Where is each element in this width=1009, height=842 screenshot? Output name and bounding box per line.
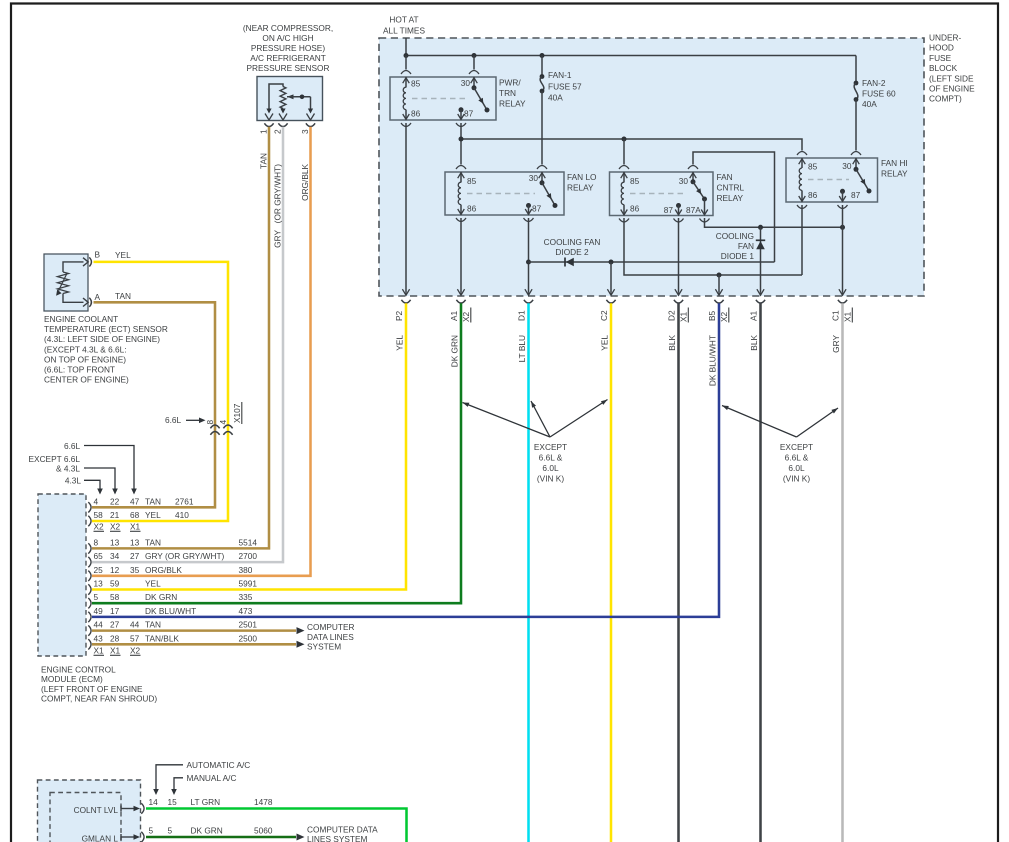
svg-text:CENTER OF ENGINE): CENTER OF ENGINE) <box>44 375 129 385</box>
svg-text:13: 13 <box>94 579 104 589</box>
svg-text:HOOD: HOOD <box>929 43 954 53</box>
svg-text:35: 35 <box>130 565 140 575</box>
relay PWR/TRN terminal 87 <box>458 107 465 119</box>
wire: FAN LO 87 down to D1 <box>526 218 531 292</box>
relay FAN HI: connector cups at bottom <box>797 205 848 209</box>
svg-text:LINES SYSTEM: LINES SYSTEM <box>307 834 367 842</box>
relay PWR/TRN movable contact arm <box>472 85 490 112</box>
svg-text:EXCEPT: EXCEPT <box>780 442 813 452</box>
svg-text:5: 5 <box>168 826 173 836</box>
svg-text:ENGINE COOLANT: ENGINE COOLANT <box>44 314 118 324</box>
relay FAN HI: connector cups at top <box>797 152 861 156</box>
svg-text:BLK: BLK <box>667 335 677 351</box>
fuse FAN-1 label <box>548 70 582 102</box>
GMLAN L output arrow <box>121 834 140 840</box>
wire LT BLU (D1) <box>527 303 530 842</box>
svg-text:21: 21 <box>110 510 120 520</box>
svg-text:17: 17 <box>110 606 120 616</box>
note: COMPUTER DATA LINES SYSTEM <box>307 622 354 652</box>
svg-text:TAN: TAN <box>259 153 269 169</box>
svg-text:BLK: BLK <box>749 335 759 351</box>
relay FAN CNTRL coil (85-86) <box>621 172 628 215</box>
wire: battery feed into fuse block <box>405 38 407 56</box>
svg-text:TAN: TAN <box>115 291 131 301</box>
relay FAN LO box <box>445 172 564 215</box>
svg-text:FAN-1: FAN-1 <box>548 70 572 80</box>
svg-text:COOLING: COOLING <box>716 231 754 241</box>
svg-text:1: 1 <box>259 129 269 134</box>
A/C refrigerant pressure sensor box <box>257 77 323 121</box>
ECM pin row ORG/BLK 380 labels <box>94 565 253 575</box>
wire: bus to PWR/TRN terminal 30 <box>473 56 475 70</box>
ECM pin row GRY (OR GRY/WHT) 2700 labels <box>94 551 258 561</box>
diode COOLING FAN DIODE 1 symbol <box>756 240 765 249</box>
inline connector X107 on TAN wire (pin 8) <box>210 425 219 435</box>
svg-text:FUSE: FUSE <box>929 53 952 63</box>
svg-text:PRESSURE SENSOR: PRESSURE SENSOR <box>247 63 330 73</box>
svg-text:FUSE 60: FUSE 60 <box>862 89 896 99</box>
svg-text:3: 3 <box>300 129 310 134</box>
svg-text:EXCEPT 6.6L: EXCEPT 6.6L <box>29 454 81 464</box>
svg-text:D1: D1 <box>517 310 527 321</box>
svg-text:AUTOMATIC A/C: AUTOMATIC A/C <box>187 760 251 770</box>
svg-text:86: 86 <box>808 190 818 200</box>
svg-text:30: 30 <box>679 176 689 186</box>
ECM pin row YEL 5991 labels <box>94 579 258 589</box>
svg-text:44: 44 <box>94 620 104 630</box>
ECT sensor box <box>44 254 88 311</box>
svg-text:85: 85 <box>411 79 421 89</box>
relay FAN CNTRL terminal 87 <box>675 203 682 215</box>
relay PWR/TRN label <box>499 78 526 109</box>
wire: relay coil feed bus <box>459 137 803 151</box>
svg-text:OF ENGINE: OF ENGINE <box>929 84 975 94</box>
note: EXCEPT 6.6L and 6.0L (VIN K) left <box>463 400 608 484</box>
svg-text:B: B <box>95 250 101 260</box>
svg-text:85: 85 <box>467 176 477 186</box>
fuse FAN-1 FUSE 57 40A <box>540 56 545 165</box>
svg-text:40A: 40A <box>862 99 877 109</box>
relay FAN HI terminal 87 <box>839 189 846 202</box>
svg-text:410: 410 <box>175 510 189 520</box>
svg-text:44: 44 <box>130 620 140 630</box>
ECM pin row TAN 2761 labels <box>94 496 194 506</box>
svg-text:A/C REFRIGERANT: A/C REFRIGERANT <box>250 53 326 63</box>
svg-text:ALL TIMES: ALL TIMES <box>383 26 425 36</box>
svg-text:5514: 5514 <box>239 537 258 547</box>
wire DK GRN circuit 5060 <box>146 834 305 841</box>
svg-text:X1: X1 <box>110 646 121 656</box>
pin row 5 5 DK GRN 5060 labels <box>149 826 273 836</box>
relay FAN CNTRL label <box>717 172 745 203</box>
svg-text:X2: X2 <box>461 311 471 322</box>
svg-text:6.6L &: 6.6L & <box>785 453 809 463</box>
svg-text:2700: 2700 <box>239 551 258 561</box>
svg-text:COMPT): COMPT) <box>929 94 962 104</box>
relay FAN LO terminal 87 <box>525 203 532 215</box>
svg-text:GMLAN L: GMLAN L <box>82 834 119 842</box>
underhood fuse block (dashed box) <box>379 38 924 296</box>
ECM connector pin hooks <box>88 502 91 649</box>
ECM pin row DK BLU/WHT 473 labels <box>94 606 253 616</box>
svg-text:25: 25 <box>94 565 104 575</box>
underhood fuse block label <box>929 33 975 104</box>
svg-text:(4.3L: LEFT SIDE OF ENGINE): (4.3L: LEFT SIDE OF ENGINE) <box>44 334 160 344</box>
wire: B5 drop <box>718 275 720 292</box>
svg-text:UNDER-: UNDER- <box>929 33 962 43</box>
wire BLK (A1 fan ground) <box>759 303 762 842</box>
wire: cooling fan diode 2 line <box>529 260 775 265</box>
wire: FAN CNTRL coil 86 to B5 ground bus <box>624 218 802 278</box>
note: EXCEPT 6.6L and 6.0L (VIN K) right <box>722 406 838 484</box>
svg-text:87: 87 <box>664 205 674 215</box>
note 6.6L pointing at X107 <box>165 415 206 425</box>
bottom module connector labels X2 X2 (cropped) <box>149 841 179 842</box>
svg-text:COOLING FAN: COOLING FAN <box>544 237 601 247</box>
svg-text:MODULE (ECM): MODULE (ECM) <box>41 674 103 684</box>
wire: FAN HI 87 down to C1 <box>842 205 844 292</box>
svg-text:CNTRL: CNTRL <box>717 183 745 193</box>
svg-text:4: 4 <box>94 496 99 506</box>
ECT sensor thermistor <box>56 258 88 307</box>
svg-text:59: 59 <box>110 579 120 589</box>
ECM connector labels X2 X2 X1 <box>94 522 141 532</box>
svg-text:C2: C2 <box>599 310 609 321</box>
svg-text:X2: X2 <box>110 522 121 532</box>
wire: top power bus <box>406 55 856 57</box>
svg-text:ENGINE CONTROL: ENGINE CONTROL <box>41 665 116 675</box>
inline connector X107 on YEL wire (pin 4) <box>223 425 232 435</box>
svg-text:2: 2 <box>273 129 283 134</box>
svg-text:COLNT LVL: COLNT LVL <box>74 805 119 815</box>
svg-text:A1: A1 <box>749 310 759 321</box>
ECM caption <box>41 665 157 704</box>
svg-text:DATA LINES: DATA LINES <box>307 632 354 642</box>
body control module outer dashed box <box>38 780 141 842</box>
relay PWR/TRN box <box>390 77 496 120</box>
svg-text:YEL: YEL <box>145 579 161 589</box>
svg-text:HOT AT: HOT AT <box>389 15 418 25</box>
svg-text:DK GRN: DK GRN <box>191 826 223 836</box>
relay FAN HI coil (85-86) <box>799 158 806 202</box>
relay FAN HI label <box>881 158 908 179</box>
svg-text:43: 43 <box>94 633 104 643</box>
net: HOT AT ALL TIMES label <box>383 15 425 36</box>
svg-text:(VIN K): (VIN K) <box>537 474 564 484</box>
ECM connector labels X1 X1 X2 <box>94 646 141 656</box>
svg-text:TAN: TAN <box>145 620 161 630</box>
svg-text:2500: 2500 <box>239 633 258 643</box>
svg-text:ORG/BLK: ORG/BLK <box>145 565 182 575</box>
svg-text:57: 57 <box>130 633 140 643</box>
A/C sensor potentiometer <box>265 84 315 120</box>
svg-text:COMPUTER: COMPUTER <box>307 622 354 632</box>
svg-text:14: 14 <box>149 797 159 807</box>
svg-text:DK GRN: DK GRN <box>450 335 460 367</box>
svg-text:30: 30 <box>461 78 471 88</box>
svg-text:X107: X107 <box>232 403 242 423</box>
svg-text:27: 27 <box>110 620 120 630</box>
note MANUAL A/C pointer <box>171 773 236 795</box>
fuse FAN-2 label <box>862 78 896 109</box>
svg-text:SYSTEM: SYSTEM <box>307 642 341 652</box>
svg-text:5: 5 <box>94 592 99 602</box>
wire DK BLU/WHT circuit 473 (B5 to ECM) <box>92 303 719 617</box>
svg-text:473: 473 <box>239 606 253 616</box>
note AUTOMATIC A/C pointer <box>153 760 250 795</box>
svg-text:DIODE 2: DIODE 2 <box>555 247 589 257</box>
A/C sensor: connector cups below box <box>264 123 315 126</box>
wire TAN/BLK circuit 2500 (ECM to data lines) <box>92 641 305 648</box>
svg-text:6.6L &: 6.6L & <box>539 453 563 463</box>
svg-text:6.0L: 6.0L <box>788 463 805 473</box>
svg-text:TAN: TAN <box>145 537 161 547</box>
svg-text:YEL: YEL <box>115 250 131 260</box>
svg-text:X1: X1 <box>679 311 689 322</box>
wire: FAN LO coil 86 down to A1 <box>460 218 462 292</box>
relay FAN LO movable contact arm <box>540 180 558 208</box>
connector label X1 (C1) <box>843 308 853 323</box>
svg-text:B5: B5 <box>707 310 717 321</box>
connector label X1 <box>679 308 689 323</box>
svg-text:8: 8 <box>94 537 99 547</box>
svg-text:6.6L: 6.6L <box>165 415 182 425</box>
svg-text:(EXCEPT 4.3L & 6.6L:: (EXCEPT 4.3L & 6.6L: <box>44 344 127 354</box>
relay PWR/TRN internal dashed link <box>412 98 467 100</box>
svg-text:5991: 5991 <box>239 579 258 589</box>
relay FAN LO internal dashed link <box>467 193 535 195</box>
svg-text:335: 335 <box>239 592 253 602</box>
svg-text:EXCEPT: EXCEPT <box>534 442 567 452</box>
relay FAN CNTRL: connector cups at top <box>619 166 698 170</box>
svg-text:12: 12 <box>110 565 120 575</box>
relay FAN LO coil (85-86) <box>458 172 465 215</box>
svg-text:380: 380 <box>239 565 253 575</box>
relay PWR/TRN switch terminal 30 <box>471 77 478 88</box>
svg-text:58: 58 <box>94 510 104 520</box>
svg-text:49: 49 <box>94 606 104 616</box>
relay FAN CNTRL internal dashed link <box>630 193 686 195</box>
bottom module pin hooks <box>141 803 144 842</box>
ECM dashed box <box>38 494 86 656</box>
svg-text:86: 86 <box>411 109 421 119</box>
svg-text:(LEFT SIDE: (LEFT SIDE <box>929 73 974 83</box>
wire LT GRN circuit 1478 <box>146 809 407 842</box>
ECM pin row TAN/BLK 2500 labels <box>94 633 258 643</box>
wire TAN circuit 2501 (ECM to data lines) <box>92 627 305 634</box>
ECM pin row TAN 5514 labels <box>94 537 258 547</box>
svg-text:2761: 2761 <box>175 496 194 506</box>
svg-text:X1: X1 <box>94 646 105 656</box>
svg-text:30: 30 <box>529 173 539 183</box>
svg-text:YEL: YEL <box>600 335 610 351</box>
note 4.3L pointer to ECM pin column 1 <box>65 476 103 495</box>
svg-text:58: 58 <box>110 592 120 602</box>
svg-text:COMPT, NEAR FAN SHROUD): COMPT, NEAR FAN SHROUD) <box>41 694 157 704</box>
fuse block bottom connector terminals (arrows and cups) <box>401 289 847 303</box>
relay FAN CNTRL movable contact arm to 87A <box>691 179 708 201</box>
wire: FAN CNTRL 87A bus <box>705 218 846 230</box>
svg-text:MANUAL A/C: MANUAL A/C <box>187 773 237 783</box>
svg-text:FAN: FAN <box>738 241 754 251</box>
wire: C2 drop from diode line <box>610 262 612 292</box>
svg-text:(OR GRY/WHT): (OR GRY/WHT) <box>273 164 283 224</box>
svg-text:1478: 1478 <box>254 797 273 807</box>
svg-text:6.6L: 6.6L <box>64 441 81 451</box>
wire: PWR/TRN 87 down to relay coil bus <box>460 123 462 165</box>
svg-text:FAN-2: FAN-2 <box>862 78 886 88</box>
svg-text:TAN/BLK: TAN/BLK <box>145 633 179 643</box>
svg-text:(6.6L: TOP FRONT: (6.6L: TOP FRONT <box>44 365 115 375</box>
wire: P2 drop (PWR/TRN coil 86) <box>405 123 407 292</box>
svg-text:& 4.3L: & 4.3L <box>56 464 80 474</box>
svg-text:ON A/C HIGH: ON A/C HIGH <box>262 33 313 43</box>
svg-text:65: 65 <box>94 551 104 561</box>
relay FAN LO label <box>567 172 597 193</box>
svg-text:PWR/: PWR/ <box>499 78 521 88</box>
ECT sensor caption <box>44 314 168 385</box>
svg-text:TEMPERATURE (ECT) SENSOR: TEMPERATURE (ECT) SENSOR <box>44 324 168 334</box>
svg-text:RELAY: RELAY <box>567 183 594 193</box>
svg-text:GRY: GRY <box>273 230 283 248</box>
svg-text:34: 34 <box>110 551 120 561</box>
relay FAN HI movable contact arm <box>854 167 872 194</box>
wire YEL (C2) <box>610 303 613 842</box>
svg-text:30: 30 <box>842 161 852 171</box>
svg-text:DK GRN: DK GRN <box>145 592 177 602</box>
relay FAN HI internal dashed link <box>808 179 849 181</box>
svg-text:15: 15 <box>168 797 178 807</box>
svg-text:C1: C1 <box>831 310 841 321</box>
svg-text:YEL: YEL <box>145 510 161 520</box>
svg-text:TRN: TRN <box>499 88 516 98</box>
diode COOLING FAN DIODE 2 symbol <box>565 258 574 267</box>
svg-text:X2: X2 <box>94 522 105 532</box>
svg-text:8: 8 <box>205 420 215 425</box>
svg-text:FAN HI: FAN HI <box>881 158 908 168</box>
wire GRY circuit 2700 (A/C sensor pin 2 to ECM) <box>92 127 283 562</box>
svg-text:4.3L: 4.3L <box>65 476 82 486</box>
svg-text:47: 47 <box>130 496 140 506</box>
svg-text:X1: X1 <box>130 522 141 532</box>
svg-text:86: 86 <box>630 204 640 214</box>
COLNT LVL output arrow <box>121 806 140 812</box>
note: COMPUTER DATA LINES SYSTEM (bottom) <box>307 825 378 842</box>
relay FAN CNTRL terminal 87A <box>701 199 708 215</box>
wire: branch to FAN CNTRL coil 85 <box>623 139 625 165</box>
svg-text:(NEAR COMPRESSOR,: (NEAR COMPRESSOR, <box>243 23 333 33</box>
relay FAN HI box <box>786 158 878 202</box>
relay FAN LO: connector cups at top <box>456 166 547 170</box>
svg-text:27: 27 <box>130 551 140 561</box>
note 6.6L pointer to ECM pin column 3 <box>64 441 137 495</box>
connector label X107 <box>232 402 242 424</box>
svg-text:5: 5 <box>149 826 154 836</box>
relay PWR/TRN coil (85-86) <box>403 77 410 120</box>
svg-text:68: 68 <box>130 510 140 520</box>
svg-text:86: 86 <box>467 204 477 214</box>
svg-text:COMPUTER DATA: COMPUTER DATA <box>307 825 378 835</box>
diode: COOLING FAN DIODE 1 wire <box>760 227 762 292</box>
svg-text:X1: X1 <box>843 311 853 322</box>
wire TAN circuit 2761 (ECT A to ECM) <box>92 302 215 507</box>
wire: FAN CNTRL 87 down to D2 <box>678 218 680 292</box>
connector label X2 (B5) <box>719 308 729 323</box>
relay PWR/TRN: connector cups at top <box>401 71 479 75</box>
note EXCEPT 6.6L & 4.3L pointer to ECM pin column 2 <box>29 454 118 495</box>
svg-text:FAN: FAN <box>717 172 733 182</box>
svg-text:4: 4 <box>218 420 228 425</box>
svg-text:P2: P2 <box>394 310 404 321</box>
wire DK GRN circuit 335 (A1 to ECM) <box>92 303 461 603</box>
svg-text:85: 85 <box>630 176 640 186</box>
relay FAN CNTRL switch terminal 30 <box>690 172 697 182</box>
svg-text:GRY (OR GRY/WHT): GRY (OR GRY/WHT) <box>145 551 225 561</box>
svg-text:87: 87 <box>532 204 542 214</box>
wire GRY (C1) <box>841 303 844 842</box>
svg-text:FAN LO: FAN LO <box>567 172 597 182</box>
A/C refrigerant pressure sensor caption <box>243 23 333 73</box>
svg-text:A: A <box>95 292 101 302</box>
svg-text:DIODE 1: DIODE 1 <box>721 251 755 261</box>
svg-text:ON TOP OF ENGINE): ON TOP OF ENGINE) <box>44 354 126 364</box>
svg-text:LT BLU: LT BLU <box>517 335 527 362</box>
relay FAN CNTRL box <box>610 172 714 216</box>
svg-text:85: 85 <box>808 162 818 172</box>
fuse FAN-2 FUSE 60 40A <box>854 56 859 151</box>
svg-text:87A: 87A <box>686 205 701 215</box>
pin row 14 15 LT GRN 1478 labels <box>149 797 273 807</box>
svg-text:RELAY: RELAY <box>499 99 526 109</box>
svg-text:28: 28 <box>110 633 120 643</box>
svg-text:YEL: YEL <box>395 335 405 351</box>
svg-text:13: 13 <box>110 537 120 547</box>
relay FAN CNTRL: connector cups at bottom <box>619 219 710 223</box>
svg-text:6.0L: 6.0L <box>542 463 559 473</box>
svg-text:DK BLU/WHT: DK BLU/WHT <box>145 606 196 616</box>
svg-text:PRESSURE HOSE): PRESSURE HOSE) <box>251 43 325 53</box>
relay FAN LO switch terminal 30 <box>539 172 546 183</box>
svg-text:RELAY: RELAY <box>881 169 908 179</box>
diode COOLING FAN DIODE 2 label <box>544 237 601 257</box>
ECM pin row DK GRN 335 labels <box>94 592 253 602</box>
diode COOLING FAN DIODE 1 label <box>716 231 755 261</box>
wire: bus to PWR/TRN coil 85 <box>405 56 407 70</box>
svg-text:FUSE 57: FUSE 57 <box>548 82 582 92</box>
svg-text:13: 13 <box>130 537 140 547</box>
wire: FAN CNTRL 30 riser to fan control feed <box>693 152 775 262</box>
svg-text:40A: 40A <box>548 92 563 102</box>
svg-text:LT GRN: LT GRN <box>191 797 221 807</box>
svg-text:A1: A1 <box>449 310 459 321</box>
wire TAN circuit 5514 (A/C sensor pin 1 to ECM) <box>92 127 269 549</box>
svg-text:X2: X2 <box>130 646 141 656</box>
svg-text:GRY: GRY <box>831 335 841 353</box>
ECM pin row YEL 410 labels <box>94 510 190 520</box>
ECM pin row TAN 2501 labels <box>94 620 258 630</box>
wire BLK (D2) <box>677 303 680 842</box>
svg-text:87: 87 <box>851 190 861 200</box>
svg-text:5060: 5060 <box>254 826 273 836</box>
wire: FAN HI coil 86 down to ground bus <box>801 205 803 275</box>
svg-text:2501: 2501 <box>239 620 258 630</box>
svg-text:(LEFT FRONT OF ENGINE: (LEFT FRONT OF ENGINE <box>41 684 143 694</box>
relay PWR/TRN: connector cups at bottom <box>401 123 466 127</box>
relay FAN LO: connector cups at bottom <box>456 218 534 222</box>
svg-text:RELAY: RELAY <box>717 193 744 203</box>
svg-text:87: 87 <box>464 109 474 119</box>
svg-text:DK BLU/WHT: DK BLU/WHT <box>708 335 718 386</box>
